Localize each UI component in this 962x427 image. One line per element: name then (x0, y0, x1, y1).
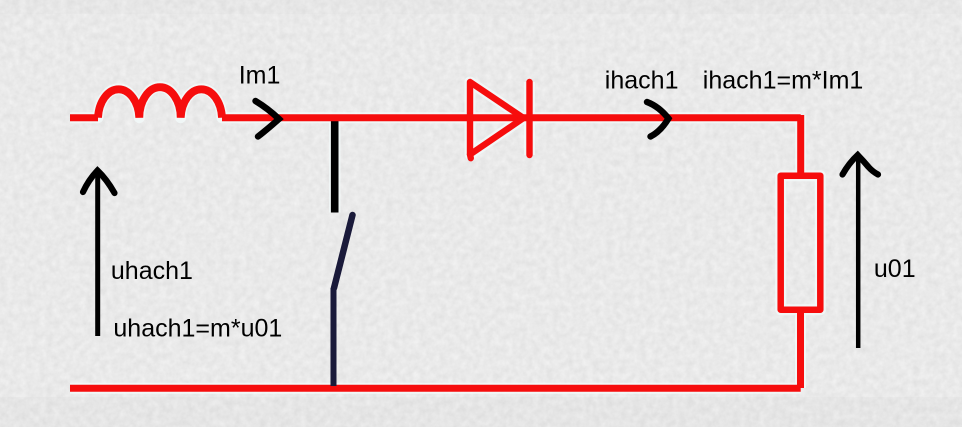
switch S1 top terminal (331, 116, 339, 213)
svg-text:ihach1: ihach1 (605, 67, 679, 95)
wire halos (white fringe) (70, 82, 820, 388)
switch S1 lower wire (331, 288, 337, 386)
wire: top rail (70, 114, 801, 121)
resistor R1 (781, 176, 821, 310)
svg-text:uhach1=m*u01: uhach1=m*u01 (113, 315, 282, 343)
current arrow ihach1 chevron (647, 102, 669, 137)
diode D1 cathode bar (526, 82, 532, 155)
switch S1 top terminal halo (329, 118, 341, 213)
wire: right vertical lower (797, 310, 804, 388)
svg-text:u01: u01 (874, 255, 916, 283)
diode D1 corner overshoot (467, 155, 474, 159)
voltage arrow u01 head (843, 155, 879, 175)
switch S1 lever (334, 215, 353, 288)
diode D1 triangle (470, 82, 524, 155)
voltage arrow uhach1 shaft (95, 173, 100, 336)
svg-text:Im1: Im1 (239, 62, 281, 90)
voltage arrow u01 shaft (856, 157, 861, 348)
wire: right vertical upper (797, 115, 804, 176)
svg-text:uhach1: uhach1 (111, 257, 193, 285)
voltage arrow uhach1 head (83, 171, 115, 194)
wire: bottom rail (70, 385, 801, 392)
svg-text:ihach1=m*Im1: ihach1=m*Im1 (703, 67, 864, 95)
inductor L1 coil (98, 87, 222, 118)
current arrow Im1 chevron (256, 101, 280, 137)
